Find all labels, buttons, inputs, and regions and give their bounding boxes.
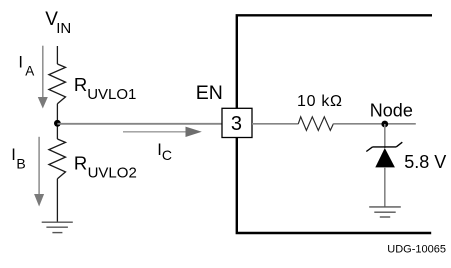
svg-text:I: I [11,146,16,164]
svg-text:I: I [18,53,23,71]
svg-text:IN: IN [56,20,71,37]
current arrow IB [34,137,44,207]
label IB [11,146,25,171]
zener diode D1 [366,142,402,167]
svg-text:UVLO2: UVLO2 [88,164,137,181]
svg-text:UDG-10065: UDG-10065 [387,244,446,256]
resistor RUVLO2 [49,139,66,179]
svg-text:5.8 V: 5.8 V [404,152,446,172]
wire node to EN pin [57,123,222,125]
current arrow IA [38,46,48,109]
resistor 10k [298,117,333,131]
wire Node to zener [384,124,386,148]
wire RUVLO1 to node [56,104,58,139]
label IC [157,141,172,163]
svg-text:EN: EN [196,82,223,104]
IC boundary box [237,15,432,233]
label RUVLO1 [74,74,137,103]
wire RUVLO2 to ground [56,179,58,222]
svg-text:B: B [16,156,25,172]
svg-text:UVLO1: UVLO1 [87,86,136,103]
wire VIN to RUVLO1 [56,46,58,64]
ground left [42,222,73,232]
svg-text:Node: Node [370,100,413,120]
node VIN label [45,9,71,37]
svg-text:R: R [74,152,87,173]
svg-text:10 kΩ: 10 kΩ [297,93,343,110]
svg-text:A: A [25,64,34,79]
wire 10k to Node [333,123,416,125]
current arrow IC [123,127,202,137]
wire zener to ground [384,167,386,207]
wire pin to 10k resistor [252,123,299,125]
svg-text:R: R [74,74,87,95]
pin box 3 [222,108,252,137]
svg-text:3: 3 [231,113,242,135]
ground right [369,207,401,217]
label IA [18,53,34,78]
junction node dot [54,120,61,127]
node Node dot [381,121,388,128]
label RUVLO2 [74,152,137,181]
svg-text:C: C [162,147,172,163]
resistor RUVLO1 [49,64,66,104]
